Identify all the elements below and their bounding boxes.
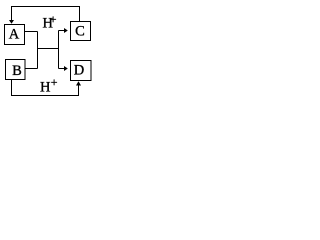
svg-text:B: B xyxy=(12,63,22,79)
svg-text:A: A xyxy=(9,27,20,43)
wire ladder right vertical xyxy=(58,31,60,69)
svg-text:+: + xyxy=(50,12,57,26)
wire B tick xyxy=(25,68,38,70)
wire top path C-to-A xyxy=(12,7,80,22)
box A xyxy=(5,25,25,45)
wire A tick xyxy=(25,31,38,33)
svg-text:+: + xyxy=(51,75,58,89)
box B xyxy=(6,60,26,80)
arrowhead into A top xyxy=(9,20,14,24)
svg-text:D: D xyxy=(74,63,84,79)
wire arrow stem to D xyxy=(59,68,65,70)
box D xyxy=(71,61,92,81)
wire bottom path B-to-D xyxy=(12,80,79,96)
arrowhead into C left xyxy=(64,28,68,33)
arrowhead into D bottom xyxy=(76,81,81,85)
wire crossbar xyxy=(38,48,59,50)
box C xyxy=(71,22,91,41)
wire arrow stem to C xyxy=(59,30,65,32)
svg-text:H: H xyxy=(40,80,51,96)
wire ladder left vertical xyxy=(37,32,39,69)
arrowhead into D left xyxy=(64,66,68,71)
svg-text:C: C xyxy=(75,24,85,40)
